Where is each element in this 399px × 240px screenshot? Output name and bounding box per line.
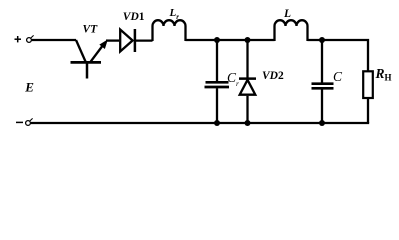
resistor RH <box>363 71 373 123</box>
capacitor Cr <box>205 40 230 123</box>
label VT <box>83 24 99 36</box>
label VD2 <box>262 70 284 82</box>
label RH <box>375 66 392 82</box>
inductor L <box>275 20 308 41</box>
node junction bottom Cr <box>214 120 220 126</box>
label L <box>283 8 291 20</box>
node junction top Cr <box>214 37 220 43</box>
node junction top VD2 <box>245 37 251 43</box>
wire Lr to L (top rail) <box>186 39 275 41</box>
svg-text:VT: VT <box>83 24 99 36</box>
svg-text:C: C <box>333 69 343 84</box>
transistor VT <box>71 40 108 79</box>
svg-text:VD2: VD2 <box>262 70 284 82</box>
svg-text:RН: RН <box>375 66 392 82</box>
svg-text:Lr: Lr <box>169 7 180 21</box>
bottom rail wire <box>31 122 368 123</box>
svg-text:VD1: VD1 <box>123 11 145 23</box>
wire L to RH (top rail right) <box>308 40 369 72</box>
label Cr <box>227 70 239 88</box>
label C <box>333 69 343 84</box>
capacitor C <box>312 40 334 123</box>
wire input to VT collector <box>32 39 76 41</box>
input terminal − <box>16 118 33 125</box>
svg-text:Cr: Cr <box>227 70 239 88</box>
wire VD1 cathode to Lr <box>135 39 153 41</box>
label Lr <box>169 7 180 21</box>
node junction bottom C <box>319 120 325 126</box>
svg-text:E: E <box>24 79 34 94</box>
diode VD1 <box>120 29 135 52</box>
node junction bottom VD2 <box>245 120 251 126</box>
svg-text:L: L <box>283 8 291 20</box>
input terminal + <box>15 35 34 42</box>
label VD1 <box>123 11 145 23</box>
wire VT emitter to VD1 anode <box>106 39 119 41</box>
node junction top C <box>319 37 325 43</box>
diode VD2 <box>239 40 256 123</box>
source label E <box>24 79 34 94</box>
inductor Lr <box>153 20 186 41</box>
